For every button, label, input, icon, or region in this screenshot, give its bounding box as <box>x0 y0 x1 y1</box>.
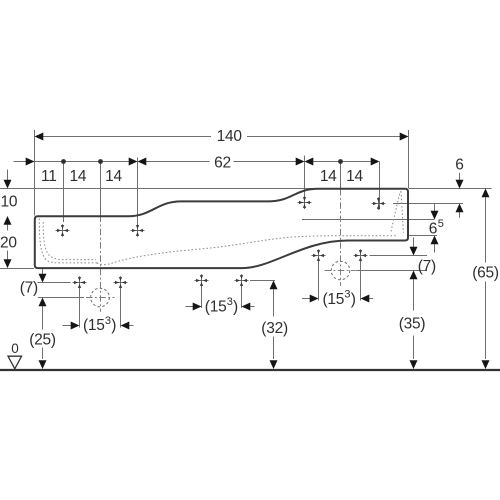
svg-text:(7): (7) <box>418 258 436 275</box>
svg-text:6: 6 <box>455 156 463 173</box>
svg-text:14: 14 <box>70 168 87 185</box>
svg-text:11: 11 <box>41 168 57 185</box>
svg-text:3: 3 <box>105 315 111 327</box>
svg-text:(15: (15 <box>323 291 345 308</box>
svg-text:(25): (25) <box>29 331 56 348</box>
svg-text:): ) <box>111 317 116 334</box>
svg-text:(15: (15 <box>205 298 227 315</box>
svg-text:62: 62 <box>214 155 231 172</box>
svg-text:6: 6 <box>429 220 437 237</box>
svg-text:(15: (15 <box>83 317 105 334</box>
svg-text:(32): (32) <box>261 320 288 337</box>
svg-text:140: 140 <box>217 128 243 145</box>
svg-text:3: 3 <box>227 296 233 308</box>
svg-text:5: 5 <box>438 218 444 230</box>
svg-text:14: 14 <box>320 168 337 185</box>
svg-text:14: 14 <box>346 168 363 185</box>
svg-text:(7): (7) <box>20 280 38 297</box>
svg-text:3: 3 <box>344 289 350 301</box>
svg-text:20: 20 <box>0 235 17 252</box>
svg-text:14: 14 <box>105 168 122 185</box>
svg-text:10: 10 <box>1 193 18 210</box>
svg-text:): ) <box>351 291 356 308</box>
svg-text:): ) <box>233 298 238 315</box>
svg-text:(35): (35) <box>399 316 426 333</box>
svg-text:0: 0 <box>11 341 19 356</box>
svg-text:(65): (65) <box>472 265 499 282</box>
